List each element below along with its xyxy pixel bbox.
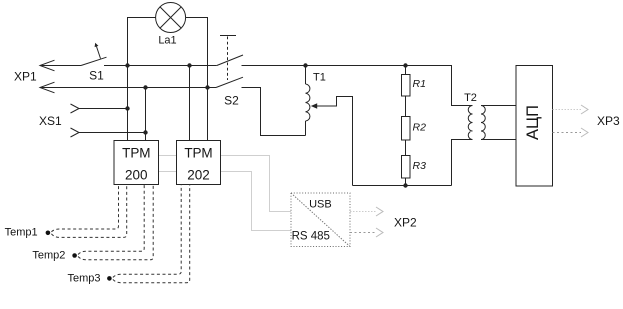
connector XP1 <box>14 60 81 93</box>
lamp La1 <box>156 3 186 47</box>
resistor R1 <box>402 66 426 97</box>
wire RS485 comm line 1 from TPM200 to converter <box>159 156 292 212</box>
wire lamp right lead down to bottom bus <box>186 18 208 88</box>
wire bottom rail <box>353 185 452 187</box>
node: T1 top / top bus junction <box>303 63 307 67</box>
node: XS1 pin2 junction <box>143 130 147 134</box>
connector XP3 <box>553 105 621 137</box>
wire top bus right section <box>242 66 473 106</box>
wire vertical from lamp junction down to TPM200 pin1 <box>127 66 129 141</box>
sensor Temp2 <box>32 185 153 262</box>
svg-text:La1: La1 <box>158 35 176 47</box>
node: R1 top / top bus junction <box>403 63 407 67</box>
box TPM200 (ТРМ 200 controller) <box>114 141 159 185</box>
transformer T1 (autotransformer) <box>306 66 353 186</box>
transformer T2 <box>452 92 517 186</box>
svg-text:R1: R1 <box>413 78 426 90</box>
svg-text:202: 202 <box>187 168 210 183</box>
svg-text:XP2: XP2 <box>394 216 417 230</box>
wire top bus left section <box>128 65 217 67</box>
wire bottom bus <box>40 87 216 89</box>
svg-text:XS1: XS1 <box>39 114 62 128</box>
node: R3 bottom / bottom rail junction <box>403 183 407 187</box>
box ADC (АЦП) <box>516 66 553 187</box>
sensor Temp1 <box>5 185 127 239</box>
svg-text:S1: S1 <box>89 69 104 83</box>
switch S2 <box>216 36 243 108</box>
svg-text:S2: S2 <box>224 94 239 108</box>
svg-text:АЦП: АЦП <box>524 105 542 140</box>
sensor Temp3 <box>68 185 190 285</box>
resistor R3 <box>402 140 427 186</box>
wire lamp left lead to top bus <box>128 18 156 66</box>
svg-text:200: 200 <box>125 168 148 183</box>
wire TPM202 pin2 vertical <box>207 88 209 141</box>
svg-text:Temp1: Temp1 <box>5 227 38 239</box>
svg-text:R3: R3 <box>413 160 427 172</box>
resistor R2 <box>402 96 427 140</box>
wire RS485 comm line 2 from TPM200 via TPM202 to converter <box>159 172 292 231</box>
svg-text:RS 485: RS 485 <box>292 231 330 243</box>
wire vertical bottom bus to TPM200 pin2 <box>145 88 147 141</box>
wire TPM202 pin1 vertical <box>189 66 191 141</box>
svg-text:T2: T2 <box>464 92 477 104</box>
svg-text:XP3: XP3 <box>597 114 620 128</box>
svg-text:XP1: XP1 <box>14 69 37 83</box>
svg-text:USB: USB <box>309 199 332 211</box>
node: XS1 pin1 junction <box>125 106 129 110</box>
connector XP2 <box>350 207 417 237</box>
node: bottom bus / TPM200 pin2 <box>143 85 147 89</box>
svg-text:ТРМ: ТРМ <box>184 146 212 161</box>
switch S1 <box>81 43 128 83</box>
box TPM202 (ТРМ 202 controller) <box>177 141 221 185</box>
svg-text:R2: R2 <box>413 122 427 134</box>
svg-text:Temp3: Temp3 <box>68 272 101 284</box>
node: lamp right / TPM202 pin2 junction <box>205 85 209 89</box>
svg-text:T1: T1 <box>313 72 326 84</box>
wire S2 lower contact to T1 bottom <box>242 88 306 136</box>
svg-text:ТРМ: ТРМ <box>122 146 150 161</box>
box USB/RS485 converter <box>291 193 350 247</box>
node: top bus / TPM202 pin1 junction <box>187 63 191 67</box>
connector XS1 <box>39 104 146 137</box>
node: S1 / lamp / top bus junction <box>125 63 129 67</box>
svg-text:Temp2: Temp2 <box>32 249 65 261</box>
